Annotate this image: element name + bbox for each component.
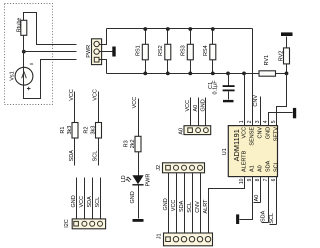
- resistor Rtube: [16, 18, 26, 36]
- svg-text:SCL: SCL: [269, 213, 275, 224]
- wire top rail down to IC pin2: [252, 29, 254, 126]
- node dots RS2: [166, 27, 170, 75]
- node junction Rtube/Vs1: [22, 50, 26, 54]
- svg-text:SDA: SDA: [260, 210, 266, 222]
- wire IC pin10 ALERTB to J1 pin6: [209, 177, 245, 233]
- svg-text:SDA: SDA: [87, 196, 93, 208]
- svg-text:GND: GND: [130, 191, 136, 203]
- svg-text:CNV: CNV: [195, 201, 201, 213]
- svg-text:R3: R3: [123, 140, 129, 147]
- pin numbers top 1-5: [239, 120, 277, 123]
- svg-text:GND: GND: [201, 99, 207, 111]
- connector I2C: [64, 219, 106, 229]
- resistor R3 2k2: [123, 97, 141, 176]
- wire Vs1 bottom to PWR pin3: [24, 36, 77, 99]
- svg-text:I2C: I2C: [64, 219, 70, 228]
- wire PWR pin2 to ground bar: [100, 51, 113, 53]
- resistor RV1: [259, 55, 276, 76]
- wire bottom rail right: [276, 73, 287, 75]
- wire IC pin5 to RV2 node: [277, 74, 287, 126]
- ground bar at C1: [223, 100, 234, 102]
- svg-text:0.1µF: 0.1µF: [212, 80, 218, 95]
- svg-text:GND: GND: [163, 198, 169, 210]
- resistor R1 3k3 pull-up: [60, 89, 78, 165]
- svg-text:7: 7: [263, 178, 269, 181]
- svg-text:VCC: VCC: [69, 89, 75, 101]
- resistor RV2: [278, 32, 292, 73]
- node dots RS4: [211, 27, 215, 75]
- svg-text:VCC: VCC: [241, 127, 247, 139]
- resistor RS3: [180, 29, 193, 74]
- wire Rtube bottom to Vs1 top: [23, 36, 25, 67]
- wires J2 to J1 bus: [163, 173, 209, 233]
- svg-text:RS4: RS4: [203, 45, 209, 56]
- svg-text:RS3: RS3: [180, 45, 186, 56]
- svg-text:SCL: SCL: [95, 197, 101, 208]
- connector J1: [157, 233, 213, 246]
- node dots RS1: [143, 27, 147, 75]
- svg-text:2k2: 2k2: [130, 139, 136, 148]
- resistor RS1: [135, 29, 148, 74]
- svg-text:VCC: VCC: [93, 89, 99, 101]
- node dot RV2/rail: [285, 72, 289, 76]
- svg-text:ALRT: ALRT: [203, 199, 209, 214]
- wire top rail: [107, 28, 253, 30]
- ground bar at IC pin4: [293, 108, 296, 118]
- svg-text:SCL: SCL: [93, 151, 99, 162]
- svg-text:GND: GND: [265, 127, 271, 139]
- svg-text:R2: R2: [84, 127, 90, 134]
- wire IC pin3 CNV stub: [253, 95, 260, 126]
- svg-text:SENSE: SENSE: [250, 127, 256, 146]
- wire bottom rail left: [107, 73, 259, 75]
- op-amp U1 ADM1191: [222, 126, 280, 177]
- svg-text:2: 2: [247, 120, 253, 123]
- ground bar at PWR: [112, 47, 115, 57]
- svg-text:4: 4: [263, 120, 269, 123]
- svg-text:A0: A0: [193, 105, 199, 112]
- svg-text:3: 3: [255, 120, 261, 123]
- svg-text:RS1: RS1: [135, 45, 141, 56]
- svg-text:1: 1: [239, 120, 245, 123]
- pin numbers bottom 10-6: [239, 178, 277, 184]
- svg-text:VCC: VCC: [185, 100, 191, 112]
- wires I2C stubs: [71, 178, 101, 219]
- ground bar at LED: [133, 219, 144, 222]
- svg-text:ALERTB: ALERTB: [241, 150, 247, 172]
- svg-text:VCC: VCC: [171, 200, 177, 212]
- wire IC pin4 to ground: [269, 113, 293, 126]
- svg-text:A0: A0: [179, 128, 185, 135]
- svg-text:R1: R1: [60, 127, 66, 134]
- wire LED to ground: [130, 186, 139, 219]
- ground bar at IC pin9: [236, 214, 239, 224]
- svg-text:SCL: SCL: [273, 161, 279, 172]
- svg-text:U1: U1: [222, 148, 228, 155]
- svg-text:SETV: SETV: [273, 127, 279, 142]
- LED LD: [121, 174, 152, 187]
- connector J2 PWR: [156, 163, 205, 173]
- svg-text:6: 6: [271, 178, 277, 181]
- svg-text:PWR: PWR: [146, 174, 152, 187]
- svg-text:J1: J1: [157, 233, 163, 239]
- svg-text:5: 5: [271, 120, 277, 123]
- svg-text:A0: A0: [254, 195, 260, 202]
- resistor RS4: [203, 29, 216, 74]
- svg-text:GND: GND: [71, 195, 77, 207]
- svg-text:CNV: CNV: [253, 95, 259, 107]
- svg-text:3k3: 3k3: [67, 126, 73, 135]
- svg-text:SCL: SCL: [187, 202, 193, 213]
- svg-text:RV1: RV1: [264, 55, 270, 66]
- svg-text:A1: A1: [250, 165, 256, 172]
- svg-text:A0: A0: [257, 165, 263, 172]
- svg-text:RS2: RS2: [158, 45, 164, 56]
- capacitor C1 0.1uF: [208, 72, 235, 100]
- svg-text:VCC: VCC: [132, 97, 138, 109]
- svg-text:VCC: VCC: [79, 196, 85, 208]
- svg-text:ADM1191: ADM1191: [232, 129, 241, 161]
- wire IC pin8 A0 stub: [254, 177, 261, 203]
- wire rail to IC pin1: [242, 72, 246, 126]
- wire IC pin9 A1 to ground: [240, 177, 253, 220]
- svg-text:Rtube: Rtube: [16, 18, 22, 33]
- dashed source-model box: [5, 4, 53, 105]
- resistor RS2: [158, 29, 171, 74]
- svg-text:Vs1: Vs1: [9, 71, 15, 80]
- svg-text:CNV: CNV: [257, 127, 263, 139]
- svg-text:SDA: SDA: [69, 150, 75, 162]
- connector PWR: [86, 39, 101, 65]
- svg-text:J2: J2: [156, 165, 162, 171]
- wire junction to PWR pin2: [24, 51, 77, 53]
- connector A0: [179, 126, 211, 135]
- svg-text:LD: LD: [121, 175, 127, 182]
- svg-text:SDA: SDA: [179, 200, 185, 212]
- svg-text:10: 10: [239, 178, 245, 184]
- wire PWR pin1 to top rail: [100, 29, 107, 45]
- wire Rtube top to PWR pin1: [24, 13, 77, 45]
- wire IC pin7 SDA stub: [260, 177, 268, 223]
- wire PWR pin3 to bottom rail: [99, 60, 107, 74]
- svg-text:8: 8: [255, 178, 261, 181]
- svg-text:SDA: SDA: [265, 160, 271, 172]
- wire IC pin6 SCL stub: [269, 177, 277, 225]
- svg-text:3k3: 3k3: [90, 126, 96, 135]
- svg-text:PWR: PWR: [86, 45, 92, 58]
- node dots RS3: [188, 27, 192, 75]
- svg-text:RV2: RV2: [278, 51, 284, 62]
- resistor R2 3k3 pull-up: [84, 89, 102, 165]
- wires A0 connector stubs: [185, 98, 207, 126]
- voltage source Vs1: [9, 64, 33, 90]
